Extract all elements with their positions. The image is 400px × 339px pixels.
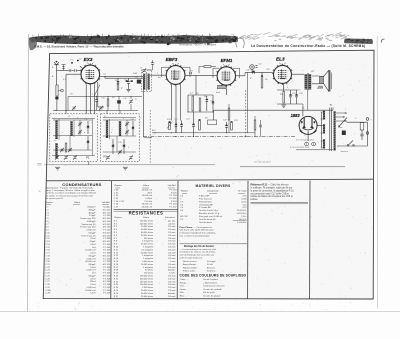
svg-text:revêt le code d’adresse :: revêt le code d’adresse : — [180, 257, 204, 260]
svg-text:50 ohms: 50 ohms — [145, 270, 153, 272]
ground — [123, 167, 128, 170]
trimmer — [68, 148, 72, 152]
svg-text:0.25mf: 0.25mf — [146, 198, 153, 200]
coil L2 — [55, 120, 57, 139]
capacitor C8 — [190, 72, 192, 74]
svg-text:4,7V 6,3V 250V 250V: 4,7V 6,3V 250V 250V — [290, 147, 310, 149]
capacitor C22 — [175, 125, 178, 127]
wire — [66, 73, 81, 75]
svg-text:P 1.308: P 1.308 — [103, 238, 111, 240]
rectifier 1883 — [299, 116, 317, 134]
svg-text:det: det — [158, 76, 161, 79]
svg-text:150 ohms: 150 ohms — [144, 273, 153, 275]
speaker — [312, 70, 332, 91]
svg-text:100μμF: 100μμF — [88, 255, 96, 257]
svg-text:P 1.102: P 1.102 — [103, 270, 111, 272]
table divider 4 — [309, 181, 311, 299]
svg-text:50.000 ohms: 50.000 ohms — [141, 252, 153, 254]
svg-text:P 1.203: P 1.203 — [169, 195, 177, 197]
svg-text:AVC: AVC — [152, 129, 157, 132]
svg-text:1/4 watt: 1/4 watt — [168, 289, 176, 292]
capacitor C1 — [69, 69, 71, 71]
svg-text:1/4 watt: 1/4 watt — [168, 246, 176, 249]
svg-text:50.000 ohms: 50.000 ohms — [141, 290, 153, 292]
svg-text:h: h — [111, 132, 112, 134]
svg-text:50 réf.: 50 réf. — [207, 263, 214, 266]
svg-text:Avant filtrage :: Avant filtrage : — [183, 263, 197, 266]
svg-text:100.000 ohms: 100.000 ohms — [140, 220, 153, 222]
resistor R4b — [107, 99, 109, 106]
svg-text:d: d — [84, 132, 85, 134]
resistor R14 — [169, 122, 171, 130]
svg-text:Potentiomètre: Potentiomètre — [199, 200, 213, 203]
svg-text:Valeur: Valeur — [74, 201, 80, 204]
svg-text:0.1mf: 0.1mf — [90, 238, 96, 240]
svg-text:90.000 ohms: 90.000 ohms — [141, 293, 153, 295]
svg-text:Spécification : P papier, mic: Spécification : P papier, mic Solco M, E… — [46, 186, 94, 189]
svg-text:bobinée: bobinée — [168, 270, 176, 272]
rule — [114, 209, 178, 211]
svg-text:M 1.020: M 1.020 — [103, 275, 111, 277]
svg-text:N° Code: N° Code — [238, 190, 247, 192]
svg-text:1 watt: 1 watt — [170, 260, 176, 263]
svg-text:1mf: 1mf — [92, 247, 96, 249]
svg-text:5.000 cmf: 5.000 cmf — [86, 230, 96, 232]
page right edge shadow — [376, 36, 378, 308]
resistor R15 — [199, 120, 201, 130]
svg-text:Valeur: Valeur — [143, 184, 149, 187]
svg-text:vant de bobinage fait racc: vant de bobinage fait raccordés aux — [180, 254, 216, 257]
enclosure line — [296, 149, 333, 151]
wire — [317, 124, 321, 126]
svg-text:Bobine mobile :: Bobine mobile : — [183, 267, 198, 269]
svg-text:5g: 5g — [98, 79, 100, 81]
svg-text:Circuit Caghers: Circuit Caghers — [203, 278, 219, 281]
selector switch diagonal — [339, 118, 347, 127]
svg-text:P 1.308: P 1.308 — [103, 253, 111, 255]
svg-text:à l’intérieur du châssis,: à l’intérieur du châssis, les fils d’éto… — [180, 251, 217, 254]
svg-text:0.5 mégohm: 0.5 mégohm — [141, 249, 153, 251]
svg-text:Repère: Repère — [115, 216, 123, 219]
svg-text:1/4 watt: 1/4 watt — [168, 277, 176, 280]
svg-text:P 1.203: P 1.203 — [103, 261, 111, 263]
svg-text:1.100.00 fr: 1.100.00 fr — [237, 209, 247, 212]
svg-text:M 1.100: M 1.100 — [103, 227, 111, 229]
svg-text:1/4 watt: 1/4 watt — [168, 248, 176, 251]
svg-text:2mf: 2mf — [92, 273, 96, 275]
svg-text:300.000 ohms: 300.000 ohms — [140, 278, 153, 280]
svg-text:25.000 ohms: 25.000 ohms — [141, 296, 153, 298]
svg-text:Jaune . . :: Jaune . . : — [180, 289, 190, 291]
svg-text:bobine de liaison du récep: bobine de liaison du récepteur sur CV8 e… — [251, 195, 294, 198]
svg-text:P 1.102: P 1.102 — [103, 230, 111, 232]
svg-text:Trimmer paj. 40: Trimmer paj. 40 — [81, 223, 96, 226]
svg-text:(sér/cm). La valeur est indiq: (sér/cm). La valeur est indiquée sur cha… — [46, 192, 97, 195]
svg-text:1/4 watt: 1/4 watt — [168, 254, 176, 257]
svg-text:3.5μμF: 3.5μμF — [89, 215, 96, 217]
wire EBF3 plate — [185, 74, 217, 76]
capacitor C15 — [87, 126, 90, 128]
ground bus 2 — [240, 166, 345, 168]
svg-text:M 1.100: M 1.100 — [103, 212, 111, 214]
svg-text:a: a — [54, 118, 55, 120]
box1 internal wires — [53, 119, 92, 121]
wire — [302, 110, 304, 116]
resistor R16b — [228, 108, 230, 120]
svg-text:P 1.203: P 1.203 — [103, 250, 111, 252]
svg-text:100.000 ohms: 100.000 ohms — [140, 281, 153, 283]
capacitor C12 — [253, 71, 255, 74]
box2 bottom trimmers — [106, 155, 110, 159]
svg-text:460μμF: 460μμF — [88, 212, 96, 214]
capacitor C10 — [212, 102, 215, 104]
svg-text:30.000 ohms: 30.000 ohms — [141, 235, 153, 237]
capacitor C4c — [117, 100, 121, 103]
wire — [117, 78, 119, 81]
resistor R6 — [192, 96, 194, 111]
mains switch — [347, 141, 354, 147]
scan smudge band — [30, 35, 239, 44]
capacitor C7 — [137, 80, 141, 84]
svg-text:100μμF: 100μμF — [88, 264, 96, 266]
svg-text:de service pour E.: de service pour E. — [46, 197, 64, 200]
svg-text:P 1.100: P 1.100 — [103, 215, 111, 217]
svg-text:— La raccordement en sortie: — La raccordement en sortie est relié — [180, 248, 217, 251]
svg-text:Repère: Repère — [181, 189, 189, 192]
svg-text:EFM1: EFM1 — [221, 58, 233, 63]
resistor R7 — [199, 98, 201, 111]
svg-text:1/4 watt: 1/4 watt — [168, 263, 176, 266]
svg-text:Lab.Ref.: Lab.Ref. — [168, 185, 177, 187]
wire EX3 plate — [100, 75, 105, 77]
svg-text:E 126: E 126 — [171, 192, 177, 194]
svg-text:P 1.308: P 1.308 — [103, 267, 111, 269]
wire taps — [321, 111, 323, 113]
capacitor C18 — [132, 127, 135, 129]
capacitor C4b — [95, 100, 98, 102]
resistor R16 — [231, 122, 233, 130]
svg-text:Trimmer paj. 450: Trimmer paj. 450 — [80, 217, 96, 220]
svg-text:M 1.100: M 1.100 — [103, 209, 111, 211]
svg-text:Lab.Ref.: Lab.Ref. — [102, 202, 111, 204]
svg-text:150.000 ohms: 150.000 ohms — [140, 284, 153, 286]
capacitor C25 — [225, 126, 228, 128]
wire — [143, 78, 145, 136]
svg-text:Repère: Repère — [46, 201, 54, 204]
wire — [307, 91, 309, 111]
tuning box — [217, 85, 226, 88]
svg-text:47μμF: 47μμF — [90, 241, 97, 243]
table divider 3 — [247, 181, 249, 299]
tube EBF3 — [166, 63, 186, 86]
svg-text:Bleu . . :: Bleu . . : — [180, 295, 188, 297]
wire — [236, 75, 246, 77]
wire — [251, 69, 253, 72]
svg-text:150μμF: 150μμF — [88, 232, 96, 234]
svg-text:Haute tension :: Haute tension : — [183, 260, 198, 263]
svg-text:EX3: EX3 — [84, 57, 93, 62]
junction dots osc — [86, 96, 87, 97]
svg-text:Montage des fils du Secteu: Montage des fils du Secteur. — [184, 245, 215, 248]
svg-text:10.000 cmf: 10.000 cmf — [85, 250, 96, 252]
table divider 2 — [176, 181, 179, 299]
svg-text:1/4 watt: 1/4 watt — [168, 251, 176, 254]
svg-text:0.1mf: 0.1mf — [90, 253, 96, 255]
svg-text:1/4 watt: 1/4 watt — [168, 275, 176, 278]
wire — [77, 70, 81, 72]
svg-text:20.000 cmf: 20.000 cmf — [85, 290, 96, 292]
IF transformer T1 — [142, 70, 152, 92]
box2 internal wires — [103, 119, 136, 121]
capacitor C28 — [342, 131, 346, 136]
svg-text:Bousilles d’arrêt, 12 g: Bousilles d’arrêt, 12 g — [199, 212, 220, 215]
svg-text:Récepteur 750477, 4 lampes: Récepteur 750477, 4 lampes — [179, 42, 217, 46]
svg-text:50.000 cmf: 50.000 cmf — [142, 206, 153, 208]
svg-text:P 1.307: P 1.307 — [169, 206, 177, 208]
svg-text:M 1.020: M 1.020 — [103, 255, 111, 257]
ground bus — [45, 164, 216, 166]
tube EX3 — [81, 63, 101, 86]
oscillator block P2 (dashed) — [101, 114, 140, 162]
svg-text:EBF3: EBF3 — [166, 57, 178, 62]
ground — [55, 167, 60, 170]
capacitor C6 — [127, 82, 130, 84]
svg-text:1/4 watt: 1/4 watt — [168, 266, 176, 269]
svg-text:2° bande MF: 2° bande MF — [199, 207, 212, 209]
svg-text:M 1.020: M 1.020 — [103, 224, 111, 226]
svg-text:Total du devis: Total du devis — [199, 221, 212, 224]
mains selector — [336, 112, 346, 122]
svg-text:+ Illuminations: + Illuminations — [203, 281, 218, 284]
svg-text:2×0.1mf: 2×0.1mf — [144, 200, 152, 203]
svg-text:P 1.306: P 1.306 — [103, 293, 111, 295]
bus — [143, 136, 296, 138]
component blobs — [71, 60, 297, 147]
svg-text:Repère: Repère — [115, 184, 123, 187]
padder trimmers on bus — [72, 106, 76, 110]
svg-text:La Documentation du Constructe: La Documentation du Constructeur-Radio —… — [251, 44, 366, 48]
fuse dumbbell — [366, 118, 369, 121]
svg-text:10.000 ohms: 10.000 ohms — [141, 226, 153, 228]
svg-text:100.000 ohms: 100.000 ohms — [140, 276, 153, 278]
wire — [52, 118, 95, 120]
svg-text:CV bipolite MF: CV bipolite MF — [199, 203, 213, 206]
tube EL3 — [273, 63, 292, 85]
wire EL3 plate — [292, 73, 305, 75]
wire — [128, 78, 130, 81]
capacitor C3 — [62, 67, 64, 69]
svg-text:M 1.020: M 1.020 — [103, 241, 111, 243]
fuse — [360, 123, 364, 131]
svg-text:6,3 V lampes cadran: 6,3 V lampes cadran — [296, 140, 314, 142]
svg-text:Prise Phono. — Ce récepteur ne: Prise Phono. — Ce récepteur ne — [180, 226, 213, 229]
table divider 1 — [110, 181, 113, 299]
svg-text:1.05×: 1.05× — [241, 215, 247, 218]
svg-text:Trimmer paj. 40: Trimmer paj. 40 — [81, 234, 96, 237]
svg-text:1.2mf: 1.2mf — [90, 293, 96, 295]
capacitor C23 — [180, 125, 183, 127]
svg-text:P 1.203: P 1.203 — [103, 290, 111, 292]
osc bus — [68, 95, 142, 97]
svg-text:g: g — [123, 118, 124, 120]
svg-text:Claire . . :: Claire . . : — [180, 278, 190, 281]
svg-text:1.000 ohms: 1.000 ohms — [142, 287, 153, 289]
wire — [213, 110, 215, 120]
svg-text:1.437.00 fr: 1.437.00 fr — [237, 212, 247, 215]
svg-text:2 watts: 2 watts — [169, 272, 176, 275]
box1 bottom trimmers — [55, 155, 59, 159]
svg-text:P 1.102: P 1.102 — [103, 258, 111, 260]
wire — [57, 70, 69, 72]
svg-text:au coffret. La tension d'essa: au coffret. La tension d'essai pour P et… — [46, 194, 94, 197]
svg-text:Trimmer paj. 450: Trimmer paj. 450 — [80, 226, 96, 229]
svg-text:50M: 50M — [133, 73, 137, 75]
svg-text:1/4 watt: 1/4 watt — [168, 237, 176, 240]
svg-text:M 1.100: M 1.100 — [103, 221, 111, 223]
svg-text:Fixat goal, excit 2.080 oh: Fixat goal, excit 2.080 oh — [199, 215, 223, 218]
resistor R3 — [117, 85, 119, 91]
B+ rail — [214, 109, 334, 111]
resistor R8 — [204, 66, 211, 68]
coil L4 — [70, 121, 72, 136]
junction dots mid — [154, 132, 155, 133]
capacitor C16 — [87, 141, 90, 143]
trimmer — [118, 150, 122, 154]
ground — [126, 90, 130, 92]
svg-text:2 mégohms: 2 mégohms — [142, 255, 153, 257]
svg-text:E 1.306: E 1.306 — [103, 281, 111, 283]
svg-text:1/4 watt: 1/4 watt — [168, 280, 176, 283]
junction dots — [55, 110, 56, 111]
svg-text:bobinée: bobinée — [168, 293, 176, 295]
svg-text:Secteur: Secteur — [341, 150, 349, 153]
svg-text:Fils de grille: Fils de grille — [203, 291, 215, 294]
svg-text:50 journ.: 50 journ. — [207, 266, 216, 269]
svg-text:10.000 cmf: 10.000 cmf — [142, 195, 153, 197]
svg-text:C 29c: C 29c — [45, 293, 50, 295]
svg-text:Circuits de plaque: Circuits de plaque — [203, 294, 221, 297]
svg-text:RESISTANCES: RESISTANCES — [129, 210, 164, 215]
svg-text:50.000 ohms: 50.000 ohms — [141, 244, 153, 246]
svg-text:P 1.306: P 1.306 — [103, 273, 111, 275]
svg-text:HP CSC: HP CSC — [180, 216, 188, 218]
rule — [180, 243, 248, 245]
svg-text:0.1mf: 0.1mf — [90, 278, 96, 280]
wire — [88, 162, 90, 165]
svg-text:40.000 ohms: 40.000 ohms — [141, 229, 153, 231]
svg-text:5.000 ohms: 5.000 ohms — [142, 261, 153, 263]
svg-text:Valeur: Valeur — [143, 216, 149, 219]
oscillator block P1 (dashed) — [50, 114, 98, 162]
page left edge shadow — [27, 34, 30, 312]
svg-text:25mf: 25mf — [147, 192, 152, 194]
svg-text:P1: P1 — [86, 156, 90, 160]
tone capacitors — [289, 95, 292, 97]
EFM1 shield bracket — [213, 68, 240, 78]
svg-text:1/4 watt: 1/4 watt — [168, 257, 176, 260]
tube EFM1 — [217, 64, 237, 86]
svg-text:R.M.S. — 18, Boulevard Voltair: R.M.S. — 18, Boulevard Voltaire, Paris 1… — [34, 44, 124, 48]
svg-text:1/4 watt: 1/4 watt — [168, 225, 176, 228]
svg-text:300 ohms: 300 ohms — [144, 238, 153, 240]
svg-text:1/4 watt: 1/4 watt — [168, 234, 176, 237]
capacitor C1b dark — [55, 97, 58, 100]
wire pins down EX3 — [85, 85, 87, 114]
resistor R17 — [254, 120, 256, 130]
svg-text:Intégrant: Intégrant — [87, 206, 96, 209]
wire diagonal — [94, 85, 100, 97]
svg-text:1/4 watt: 1/4 watt — [168, 231, 176, 234]
svg-text:41.25: 41.25 — [241, 201, 247, 203]
capacitor C2 — [75, 69, 77, 71]
svg-text:1/4 watt: 1/4 watt — [168, 240, 176, 243]
svg-text:P 1.309: P 1.309 — [169, 198, 177, 200]
wire corner — [144, 137, 153, 139]
svg-text:M 1.020: M 1.020 — [103, 218, 111, 220]
wire — [56, 99, 58, 110]
svg-text:1/4 watt: 1/4 watt — [168, 283, 176, 286]
svg-text:1/4 watt: 1/4 watt — [168, 243, 176, 246]
svg-text:M 1.020: M 1.020 — [103, 264, 111, 266]
grid cap circle — [250, 65, 255, 70]
output transformer — [305, 74, 308, 90]
capacitor C5 — [117, 82, 120, 84]
ground — [282, 105, 286, 107]
svg-text:variable: variable — [103, 206, 111, 209]
field coil — [318, 86, 323, 89]
terre stub — [63, 65, 65, 71]
svg-text:Vert . . :: Vert . . : — [180, 285, 188, 288]
svg-text:100μμF: 100μμF — [88, 275, 96, 277]
svg-text:Circuits de cathode: Circuits de cathode — [203, 288, 223, 291]
svg-text:e: e — [58, 147, 59, 149]
margin marks — [27, 164, 42, 296]
svg-text:C 34, C 35: C 34, C 35 — [114, 201, 125, 203]
resistor R10 cathode — [283, 92, 285, 104]
svg-text:3 Blocs MF: 3 Blocs MF — [199, 196, 210, 198]
wire — [188, 94, 213, 96]
antenna — [54, 61, 59, 71]
svg-text:M 1.020: M 1.020 — [103, 235, 111, 237]
svg-text:fant d’une axile aptile di: fant d’une axile aptile diffusion pour — [180, 229, 215, 232]
svg-text:Tr: Tr — [330, 103, 332, 107]
svg-text:5.000 cmf: 5.000 cmf — [86, 287, 96, 289]
coil bus — [53, 110, 138, 112]
wire volume feed — [247, 72, 249, 132]
svg-text:le suffisant. Fil protégée,: le suffisant. Fil protégée, sujet par fi… — [251, 186, 293, 189]
svg-text:1/4 watt: 1/4 watt — [168, 295, 176, 298]
svg-text:20.000 cmf: 20.000 cmf — [142, 190, 153, 192]
svg-text:125mf: 125mf — [90, 281, 96, 283]
svg-text:1883: 1883 — [291, 113, 301, 118]
svg-text:0.5mf: 0.5mf — [90, 244, 96, 246]
svg-text:110 130 220 245 V: 110 130 220 245 V — [254, 162, 271, 164]
pot arrow — [167, 122, 173, 129]
svg-text:1 mégohm: 1 mégohm — [143, 247, 153, 249]
svg-text:P 1.203: P 1.203 — [169, 204, 177, 206]
wire — [245, 71, 273, 73]
svg-text:0.1mf: 0.1mf — [90, 267, 96, 269]
resistor R9 — [261, 76, 263, 88]
svg-text:diod: diod — [216, 92, 220, 94]
svg-text:b: b — [77, 118, 78, 120]
wire — [85, 111, 87, 114]
svg-text:P 1.102: P 1.102 — [103, 287, 111, 289]
svg-text:Fme d’accord: Fme d’accord — [199, 198, 212, 201]
svg-text:Filtres sortie :: Filtres sortie : — [183, 270, 197, 273]
svg-text:50 suppl.: 50 suppl. — [207, 261, 216, 263]
svg-text:P 1.306: P 1.306 — [103, 244, 111, 246]
